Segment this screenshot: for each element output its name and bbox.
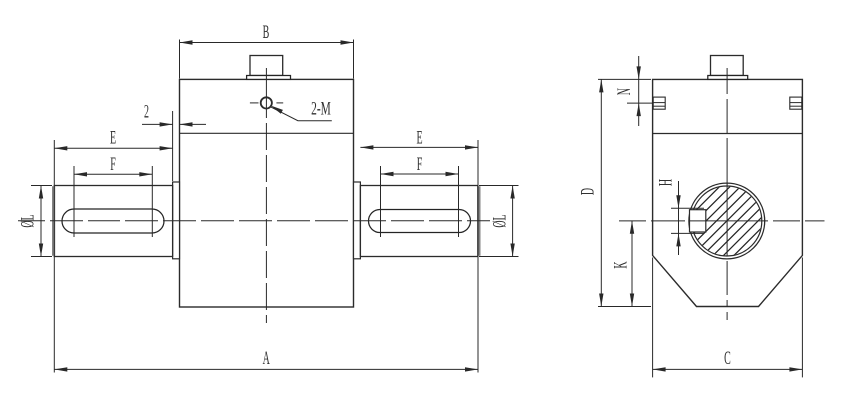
svg-text:2-M: 2-M [311,99,331,119]
shaft cross-section outer circle [689,183,765,259]
dimension E-right line [360,146,478,148]
right shaft end face (thick) [477,186,480,256]
dimension D bottom extension [598,306,651,308]
dimension H arrows [676,195,680,208]
dimension F-right arrows [381,172,394,176]
label K [611,261,631,268]
label OL left [19,214,39,227]
svg-text:2: 2 [144,103,149,123]
right collar step [354,182,361,259]
right view body outline [653,79,803,306]
dimension 2 arrows [160,122,173,126]
label N [615,88,635,95]
dimension H line [678,181,680,255]
svg-text:K: K [611,261,631,268]
svg-text:A: A [263,349,270,369]
dimension N arrows [637,66,641,79]
dimension K line [631,221,633,307]
dimension 2 line right part [180,123,207,125]
leader line for 2-M [271,107,332,121]
left view body upper internal line [180,132,354,134]
leader arrow [271,106,283,114]
dimension E-right arrows [360,145,373,149]
connector J1 flange (left view) [247,76,291,80]
svg-text:B: B [263,23,270,43]
connector J1 body (right view) [711,56,744,76]
svg-text:H: H [657,179,677,186]
dimension K arrows [630,221,634,234]
dimension OL-left line [40,186,42,257]
shaft cross-section inner circle [692,186,762,256]
left collar step [173,182,180,259]
dimension C arrows [653,367,666,371]
dimension OL-left extension lines [31,185,52,187]
left mounting tab [653,97,665,109]
svg-text:ØL: ØL [19,214,39,227]
dimension A arrows [54,367,67,371]
dimension F-left extension lines [73,166,75,237]
label OL right [491,214,511,227]
tapped hole horizontal tick right [276,102,283,104]
svg-text:E: E [416,129,422,149]
svg-text:F: F [110,155,116,175]
dimension F-left line [74,173,152,175]
dimension D line [600,79,602,306]
dimension F-right line [381,173,459,175]
dimension F-left arrows [74,172,87,176]
keyway notch rectangle [690,210,706,232]
dimension C extension lines [652,258,654,378]
dimension D arrows [599,79,603,92]
right view body upper internal line [653,133,803,135]
svg-text:N: N [615,88,635,95]
right shaft outline [360,186,477,257]
dimension C line [653,368,803,370]
svg-text:E: E [110,129,116,149]
right mounting tab [790,97,802,109]
svg-text:D: D [578,188,598,195]
left shaft keyway slot [62,209,164,233]
dimension OL-right arrows [510,186,514,199]
dimension H extension lines [671,207,704,209]
dimension 2 line left part [142,123,173,125]
dimension A line [54,368,478,370]
right shaft keyway slot [369,210,471,233]
dimension OL-left arrows [39,186,43,199]
connector J1 body (left view) [250,56,283,76]
horizontal centerline (left view) [18,220,45,222]
dimension E-left line [54,147,172,149]
label H [657,179,677,186]
dimension OL-right extension lines [479,185,519,187]
dimension OL-right line [512,186,514,257]
svg-text:C: C [724,349,731,369]
dimension N line [638,56,640,126]
horizontal centerline (right view) [619,220,646,222]
vertical centerline (left view) [265,68,267,118]
dimension B extension lines [179,40,181,79]
svg-text:F: F [417,155,423,175]
vertical centerline (right view) [726,68,728,94]
dimension E-left arrows [54,146,67,150]
dimension E-left extension line [53,140,55,373]
label D [578,188,598,195]
tapped hole 2-M circle [261,97,272,108]
dimension N extension line [627,102,653,104]
left view main body outline [180,79,354,307]
left shaft end face (thick) [52,186,55,256]
svg-text:ØL: ØL [491,214,511,227]
dimension F-right extension lines [380,166,382,237]
dimension D top extension [598,78,651,80]
dimension B line [180,42,354,44]
connector J1 flange (right view) [708,76,748,80]
dimension E-right extension line [477,140,479,373]
dimension B arrows [180,40,193,44]
dimension 2 extension line [172,111,174,181]
left shaft outline [54,186,172,257]
tapped hole horizontal tick left [250,102,259,104]
